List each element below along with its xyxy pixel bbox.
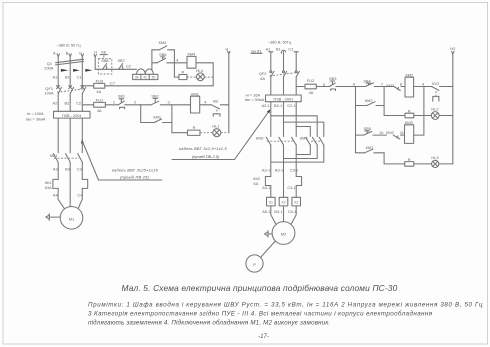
- feed arrow A: [57, 54, 59, 57]
- wire KM4 coil to right vertical: [196, 62, 213, 64]
- wire node 7: [375, 86, 385, 88]
- svg-text:-17-: -17-: [258, 334, 269, 340]
- wire A4 to motor: [58, 188, 64, 208]
- wire HL2 to N2: [439, 115, 453, 117]
- svg-text:ЅВ8: ЅВ8: [101, 58, 108, 63]
- feed arrow C: [81, 54, 83, 57]
- wire KM3 coil to node4 vertical: [414, 134, 424, 136]
- svg-text:6А: 6А: [260, 76, 265, 81]
- button SB3 stop: [329, 76, 336, 90]
- wire control top row: [152, 62, 157, 64]
- svg-text:FU2: FU2: [307, 78, 314, 83]
- wire HL1 to N: [221, 132, 229, 134]
- wire M2 control tap from C: [296, 86, 305, 88]
- contactor KM2 pole B: [279, 137, 284, 145]
- wire node 11: [400, 134, 404, 136]
- resistor R (HL4): [179, 70, 187, 80]
- svg-text:7: 7: [381, 82, 383, 87]
- svg-text:63А: 63А: [45, 185, 52, 190]
- wire crossover C to KM3 pole1: [296, 127, 310, 137]
- svg-text:ПЗВ - 2001: ПЗВ - 2001: [273, 96, 293, 101]
- wire B2-1: [283, 102, 285, 137]
- svg-text:КМ1: КМ1: [191, 91, 199, 96]
- svg-text:КВ: КВ: [213, 98, 218, 103]
- wire lamp loop left vertical: [173, 63, 175, 77]
- svg-text:В1: В1: [65, 75, 70, 80]
- svg-text:А2: А2: [53, 101, 58, 106]
- coil KM1: [191, 91, 200, 113]
- wire SB5 row left: [356, 134, 364, 136]
- wire TV1 secondary to control: [151, 63, 153, 70]
- svg-text:М2: М2: [281, 232, 286, 237]
- breaker QF1 pole B: [69, 86, 74, 94]
- wire phase C1 right: [295, 52, 297, 71]
- svg-text:36: 36: [135, 76, 139, 80]
- wire phase B1 right: [283, 52, 285, 71]
- svg-text:В4-1: В4-1: [274, 209, 282, 214]
- svg-text:В1: В1: [276, 46, 281, 51]
- svg-text:ПЗВ - 2001: ПЗВ - 2001: [62, 113, 82, 118]
- RCD PZV-2001 box: [54, 111, 91, 118]
- contactor KM1 pole B: [66, 154, 71, 163]
- lamp HL2: [431, 106, 439, 119]
- svg-text:200А: 200А: [44, 66, 53, 71]
- svg-text:КЕ: КЕ: [101, 49, 106, 54]
- svg-text:Р: Р: [253, 262, 256, 267]
- svg-text:~380 В, 50Гц: ~380 В, 50Гц: [268, 39, 292, 44]
- coil KM4: [187, 51, 196, 68]
- feed tick A right: [269, 51, 273, 53]
- wire phase C upper: [81, 57, 83, 87]
- svg-text:4: 4: [422, 82, 425, 87]
- fuse FU1: [94, 98, 106, 114]
- wire C3 segment: [81, 162, 83, 179]
- wire HL2 row left: [384, 115, 405, 117]
- svg-text:Ін = 100А: Ін = 100А: [27, 111, 44, 116]
- wire phase C1 to RCD: [295, 77, 297, 95]
- terminal X1: [267, 197, 276, 206]
- svg-text:КМ2: КМ2: [386, 130, 394, 135]
- svg-text:~380 В, 50 Гц: ~380 В, 50 Гц: [56, 42, 81, 47]
- wire R to HL2: [414, 115, 432, 117]
- coil KM2: [405, 72, 414, 97]
- wire node 10: [373, 134, 387, 136]
- link switch XB8 in dashed box: [98, 58, 111, 74]
- wire C5-1 to motor: [291, 206, 296, 225]
- svg-text:С4-1: С4-1: [287, 185, 295, 190]
- svg-text:(провід ПВ-2,5): (провід ПВ-2,5): [192, 154, 220, 159]
- transformer TV1 box: [133, 74, 158, 79]
- svg-text:В: В: [66, 50, 69, 55]
- wire C7 to lamp block: [105, 85, 213, 87]
- node KE earthing label: [100, 49, 108, 58]
- svg-text:КМ1: КМ1: [153, 115, 161, 120]
- wire node 6 to SB4: [356, 86, 366, 88]
- svg-text:кабель ВВГ 3х25+1х16: кабель ВВГ 3х25+1х16: [112, 167, 159, 172]
- svg-text:50: 50: [152, 76, 156, 80]
- contact KM3 interlock NC: [384, 83, 400, 91]
- svg-text:10: 10: [379, 130, 384, 135]
- node N supply arrow top left: [94, 50, 97, 70]
- node N neutral: [225, 46, 230, 132]
- wire node 4: [200, 104, 212, 106]
- wire C4-1: [295, 186, 297, 198]
- svg-text:кабель ВВГ 3х2,5+1х1,5: кабель ВВГ 3х2,5+1х1,5: [179, 146, 227, 151]
- relay contact KV: [212, 98, 221, 116]
- svg-text:3 Категорія електропостачання: 3 Категорія електропостачання згідно ПУЕ…: [88, 311, 433, 318]
- motor M2: [272, 222, 295, 245]
- contactor KM1 link bar: [54, 157, 79, 159]
- switch Q1 blade arrow B: [73, 69, 80, 72]
- wire right vertical of lamp block: [212, 63, 214, 86]
- wire node 2 to SB2: [141, 104, 152, 106]
- breaker QF2 pole A: [270, 71, 274, 77]
- svg-text:Х1: Х1: [269, 200, 273, 204]
- wire A2-1: [270, 102, 272, 137]
- wire crossover A to KM3 pole2: [271, 116, 317, 137]
- wire KM3 pole3 out to A: [271, 145, 324, 162]
- wire node 4 right: [414, 86, 432, 88]
- wire R to HL3: [414, 163, 432, 165]
- wire node 6: [336, 86, 356, 88]
- contactor KM3 pole 3: [319, 137, 324, 145]
- breaker QF1 pole C: [81, 86, 86, 94]
- tachometer P: [246, 255, 263, 272]
- resistor R (HL1): [188, 125, 201, 135]
- svg-text:С5-1: С5-1: [288, 209, 296, 214]
- svg-text:6А: 6А: [254, 181, 259, 186]
- svg-text:3: 3: [168, 99, 170, 104]
- resistor R (HL3): [405, 157, 414, 166]
- svg-text:КМ2: КМ2: [405, 72, 413, 77]
- button SB4 start: [363, 79, 373, 87]
- wire phase B1 to RCD: [283, 77, 285, 95]
- contactor KM3 pole 2: [312, 137, 317, 145]
- svg-text:Іво = 30мА: Іво = 30мА: [26, 117, 46, 122]
- svg-text:Х3: Х3: [294, 200, 298, 204]
- tachometer P link: [261, 241, 276, 258]
- wire node7b vertical: [383, 153, 385, 164]
- svg-text:КМ2: КМ2: [365, 98, 373, 103]
- contact KM1 aux row: [356, 145, 385, 153]
- wire node 3: [160, 104, 190, 106]
- svg-text:С2-1: С2-1: [287, 103, 295, 108]
- svg-text:КМ4: КМ4: [187, 51, 196, 56]
- svg-text:R: R: [181, 70, 184, 75]
- wire C3-1: [295, 145, 297, 177]
- breaker QF2 pole C: [295, 71, 299, 77]
- wire phase A mid: [57, 94, 59, 112]
- feed tick B right: [281, 50, 285, 53]
- breaker QF1 pole A: [57, 86, 62, 94]
- thermal relay KK1 element A: [53, 179, 58, 188]
- svg-text:С7: С7: [110, 80, 115, 85]
- svg-text:С1: С1: [77, 75, 82, 80]
- svg-text:ЅВ3: ЅВ3: [329, 76, 336, 81]
- svg-text:Н2: Н2: [450, 46, 455, 51]
- switch Q1 blade arrow C: [85, 69, 92, 72]
- svg-text:(провід ПВ-25): (провід ПВ-25): [120, 175, 150, 180]
- svg-text:2: 2: [134, 99, 136, 104]
- svg-text:А4-1: А4-1: [262, 185, 270, 190]
- wire phase A1 to RCD: [270, 77, 272, 95]
- svg-text:Мал. 5. Схема електрична принц: Мал. 5. Схема електрична принципова подр…: [122, 283, 398, 293]
- switch SB6: [157, 52, 166, 63]
- svg-text:42: 42: [143, 76, 147, 80]
- feed tick C right: [294, 51, 298, 53]
- wire phase A1 right: [270, 52, 272, 71]
- svg-text:КV2: КV2: [432, 81, 439, 86]
- wire HL4 to right vertical: [204, 76, 213, 78]
- button SB2 start: [151, 94, 159, 105]
- wire lamp row left: [172, 132, 188, 134]
- svg-text:Іво = 30мА: Іво = 30мА: [245, 97, 265, 102]
- wire KV2 to N2: [440, 86, 453, 88]
- contactor KM2 pole A: [266, 137, 271, 145]
- wire B4 to motor: [69, 198, 71, 207]
- svg-text:HL2: HL2: [431, 106, 438, 111]
- wire B3 segment: [69, 162, 71, 197]
- wire R to HL4: [187, 76, 197, 78]
- svg-text:HL1: HL1: [212, 124, 219, 129]
- contactor KM3 pole 1: [306, 137, 311, 145]
- wire N bus: [95, 68, 136, 70]
- wire phase C lower: [81, 118, 83, 153]
- switch Q1 bar: [56, 59, 84, 65]
- svg-text:11: 11: [400, 130, 404, 135]
- svg-text:КМ2: КМ2: [256, 136, 264, 141]
- svg-text:6: 6: [353, 82, 355, 87]
- svg-text:В2-1: В2-1: [274, 103, 282, 108]
- wire A3-1: [270, 145, 272, 177]
- wire A3 segment: [57, 162, 59, 179]
- wire KM3 pole1 out to C: [296, 145, 310, 155]
- svg-text:FU1: FU1: [96, 98, 103, 103]
- svg-text:А5-1: А5-1: [262, 209, 270, 214]
- wire left vertical node6 branch: [355, 87, 357, 153]
- wire HL3 to N2: [439, 163, 453, 165]
- wire phase C mid: [81, 94, 83, 112]
- wire B3-1: [283, 145, 285, 197]
- contactor KM2 link bar: [267, 140, 293, 142]
- button SB1 stop: [118, 94, 125, 109]
- thermal relay KK2 element C: [296, 177, 301, 186]
- svg-text:ЅВ2: ЅВ2: [151, 94, 158, 99]
- ground M1: [46, 214, 60, 221]
- wire phase A lower: [57, 118, 59, 153]
- svg-text:КМ3: КМ3: [405, 120, 413, 125]
- fuse FU2: [305, 78, 316, 95]
- svg-text:А: А: [53, 50, 56, 55]
- svg-text:КК1: КК1: [45, 180, 52, 185]
- svg-text:КМ3: КМ3: [386, 83, 394, 88]
- svg-text:КМ4: КМ4: [159, 40, 168, 45]
- svg-text:В3: В3: [65, 166, 70, 171]
- wire C4 to motor: [78, 188, 82, 208]
- cable callout kabel VVG 3x25+1x16: [81, 139, 162, 180]
- relay contact KV2: [432, 81, 440, 101]
- svg-text:HL4: HL4: [196, 68, 204, 73]
- contact KM2 aux latch: [356, 98, 385, 106]
- svg-text:FU3: FU3: [96, 79, 103, 84]
- wire crossover B to KM3 pole3: [284, 122, 324, 136]
- fuse FU3: [94, 79, 105, 94]
- contact KM1 aux latch branch: [141, 105, 172, 123]
- wire phase A upper: [57, 57, 59, 87]
- cable callout kabel VVG 3x2,5+1x1,5: [172, 109, 270, 159]
- wire FU1 row from C2: [82, 104, 93, 106]
- svg-text:А3-1: А3-1: [262, 167, 270, 172]
- wire node 8: [401, 86, 405, 88]
- svg-text:1: 1: [113, 99, 115, 104]
- wire node 2: [125, 104, 141, 106]
- contactor KM1 pole A: [53, 154, 58, 163]
- svg-text:см Л1: см Л1: [251, 48, 261, 53]
- svg-text:Примітки: 1 Шафа вводна і керу: Примітки: 1 Шафа вводна і керування ШВУ …: [88, 302, 483, 309]
- wire node 1: [105, 104, 118, 106]
- terminal X3: [292, 197, 301, 206]
- svg-text:5: 5: [323, 82, 325, 87]
- wire B5-1 to motor: [283, 206, 285, 222]
- button SB5: [364, 126, 372, 135]
- wire phase B mid: [69, 94, 71, 112]
- svg-text:С3: С3: [77, 166, 82, 171]
- terminal X2: [279, 197, 288, 206]
- svg-text:ЅВ7: ЅВ7: [118, 58, 125, 63]
- svg-text:С3-1: С3-1: [290, 167, 298, 172]
- svg-text:ЅВ1: ЅВ1: [118, 94, 125, 99]
- contactor KM3 link bar: [311, 140, 322, 142]
- wire A5-1 to motor: [271, 206, 276, 225]
- svg-text:А3: А3: [53, 166, 58, 171]
- wire KV to N: [220, 104, 229, 106]
- svg-text:Н: Н: [225, 46, 228, 51]
- wire C2-1: [295, 102, 297, 137]
- svg-text:8: 8: [400, 81, 402, 86]
- svg-text:R: R: [193, 125, 196, 130]
- thermal relay KK1 element C: [82, 179, 87, 188]
- wire node4 vertical: [423, 87, 425, 136]
- contactor KM2 pole C: [292, 137, 297, 145]
- wire phase B lower: [69, 118, 71, 153]
- RCD PZV-2001-1 box: [266, 95, 302, 102]
- thermal relay KK2 element A: [265, 177, 270, 186]
- lamp HL3: [431, 155, 438, 168]
- svg-text:М1: М1: [69, 216, 74, 221]
- breaker QF1 link bar: [57, 89, 85, 92]
- wire node7 vertical: [383, 87, 385, 116]
- svg-text:підлягають заземлення 4. Підкл: підлягають заземлення 4. Підключення обл…: [88, 320, 330, 327]
- wire node 5: [316, 86, 329, 88]
- svg-text:А2-1: А2-1: [261, 103, 269, 108]
- wire A4-1: [270, 186, 272, 198]
- wire R to HL1: [200, 132, 213, 134]
- svg-text:С2: С2: [126, 63, 131, 68]
- contactor KM1 pole C: [78, 154, 83, 163]
- resistor R (HL2): [405, 109, 414, 118]
- switch Q1 blade arrow A: [61, 69, 69, 72]
- feed arrow B: [69, 54, 71, 57]
- contact KM2 interlock NC: [386, 130, 400, 139]
- svg-text:Х2: Х2: [281, 200, 285, 204]
- contact KM4 aux loop: [152, 40, 175, 63]
- wire HL3 row left: [384, 163, 405, 165]
- coil KM3: [405, 120, 414, 143]
- motor M1: [60, 207, 83, 230]
- wire FU3 row from C1: [82, 85, 93, 87]
- svg-text:ЅВ6: ЅВ6: [159, 52, 166, 57]
- link switch XB7: [118, 58, 125, 69]
- breaker QF2 link bar: [270, 72, 300, 76]
- ground M2: [264, 231, 272, 237]
- svg-text:4: 4: [176, 58, 179, 63]
- svg-text:100А: 100А: [45, 91, 54, 96]
- svg-text:4: 4: [204, 99, 207, 104]
- wire node 4 top: [167, 62, 187, 64]
- svg-text:4А: 4А: [96, 89, 101, 94]
- lamp HL1: [212, 124, 220, 137]
- wire phase B upper: [69, 57, 71, 87]
- note sm L1: [251, 48, 262, 53]
- svg-text:В3-1: В3-1: [275, 167, 283, 172]
- transformer TV1 windings: [137, 69, 154, 74]
- lamp HL4: [196, 68, 205, 81]
- node N2: [450, 46, 455, 164]
- svg-text:R: R: [408, 157, 411, 162]
- svg-text:HL3: HL3: [431, 155, 438, 160]
- svg-text:С1: С1: [288, 46, 293, 51]
- wire KM3 pole2 out to B: [284, 145, 318, 159]
- svg-text:С2: С2: [76, 101, 81, 106]
- svg-text:В2: В2: [65, 101, 70, 106]
- breaker QF2 pole B: [283, 71, 287, 77]
- wire lamp branch vertical: [171, 105, 173, 133]
- wire lamp loop bottom left: [174, 76, 179, 78]
- svg-text:А1: А1: [53, 75, 58, 80]
- svg-text:4А: 4А: [309, 90, 314, 95]
- svg-text:4А: 4А: [97, 108, 102, 113]
- svg-text:А1: А1: [266, 46, 271, 51]
